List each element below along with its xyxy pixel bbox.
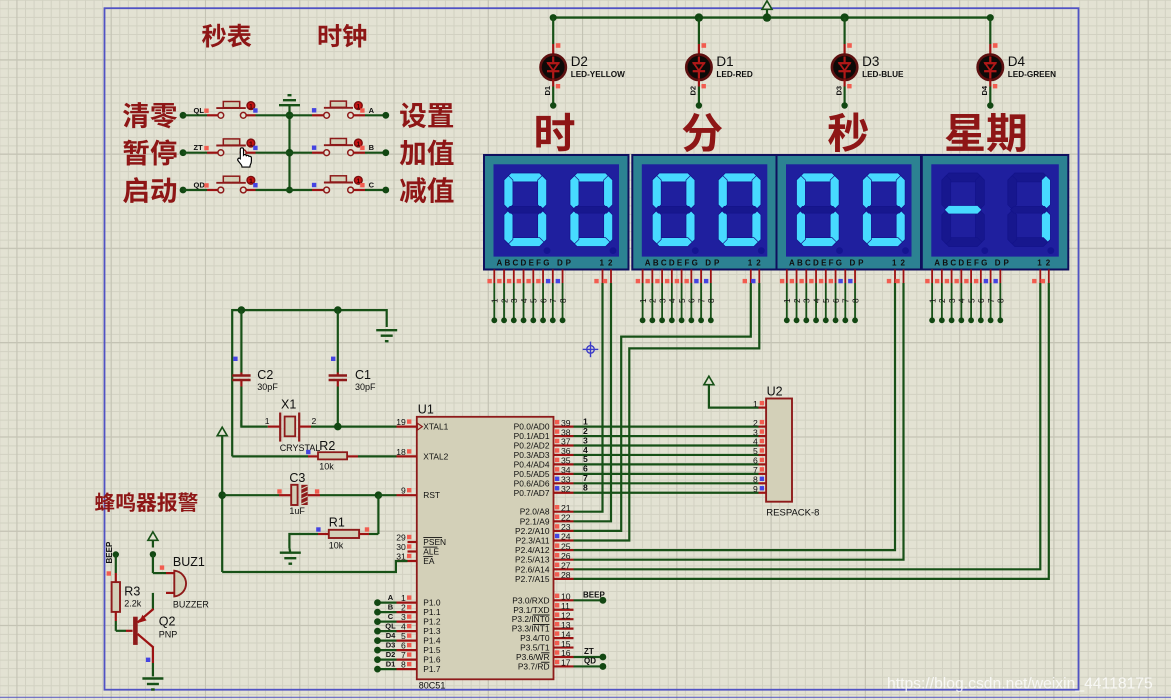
svg-text:24: 24 — [561, 532, 571, 542]
svg-text:3: 3 — [948, 298, 957, 303]
svg-text:2: 2 — [901, 259, 906, 268]
U1 pin 5 P1.4 wire (net D4) — [374, 631, 417, 644]
U1 pin label P3.1/TXD — [513, 605, 549, 615]
svg-text:2: 2 — [793, 298, 802, 303]
svg-text:A: A — [388, 593, 394, 602]
svg-text:4: 4 — [668, 298, 677, 303]
U1 pin label EA — [423, 556, 435, 566]
U1 pin label XTAL2 — [423, 451, 448, 461]
svg-text:1: 1 — [356, 178, 360, 185]
label 设置 — [400, 102, 453, 128]
junction C1/XTAL1 wire — [334, 423, 342, 431]
crystal X1 — [265, 398, 321, 454]
U1 pin 36 P0.3/AD3 wire (net 4) to U2 pin 5 — [554, 445, 767, 456]
svg-text:P2.0/A8: P2.0/A8 — [520, 507, 550, 517]
wire P2.4 to display3 sel1 — [574, 283, 896, 550]
U1 pin 16 P3.6/WR wire (net ZT) — [554, 647, 607, 660]
svg-text:7: 7 — [549, 298, 558, 303]
display 1 segment pin 4 — [517, 270, 529, 324]
svg-text:D3: D3 — [834, 86, 843, 96]
svg-text:5: 5 — [967, 298, 976, 303]
display 7SEG-MPX2 (seconds) — [777, 155, 922, 270]
svg-text:P2.6/A14: P2.6/A14 — [515, 564, 550, 574]
svg-text:P1.3: P1.3 — [423, 626, 441, 636]
svg-text:21: 21 — [561, 503, 571, 513]
display 1 segment pin 1 — [487, 270, 499, 324]
svg-text:1uF: 1uF — [289, 506, 305, 516]
svg-text:1: 1 — [249, 103, 253, 110]
display 2 segment pin 7 — [694, 270, 706, 324]
U1 pin label P2.5/A13 — [515, 555, 550, 565]
U1 pin 39 P0.0/AD0 wire (net 1) to U2 pin 2 — [554, 416, 767, 427]
svg-text:RESPACK-8: RESPACK-8 — [766, 508, 819, 519]
U1 pin 28 P2.7/A15 stub — [554, 570, 574, 580]
U1 pin label P2.3/A11 — [516, 536, 550, 546]
U1 pin 24 P2.3/A11 stub — [554, 532, 574, 542]
display 3 segment pin 8 — [848, 270, 860, 324]
label 秒 — [828, 113, 868, 152]
ground (button common) — [279, 95, 300, 105]
svg-text:4: 4 — [520, 298, 529, 303]
capacitor C1 30pF — [329, 310, 376, 427]
label 暂停 — [124, 139, 177, 165]
svg-text:8: 8 — [997, 298, 1006, 303]
display 1 segment pin 3 — [507, 270, 519, 324]
svg-text:18: 18 — [396, 447, 406, 457]
U1 pin 7 P1.6 wire (net D2) — [374, 650, 417, 663]
power arrow (RST) — [217, 427, 227, 443]
led D2 LED-YELLOW — [541, 18, 626, 109]
svg-text:P1.4: P1.4 — [423, 636, 441, 646]
display 4 select pin 1 stub — [1032, 270, 1040, 284]
led D3 LED-BLUE — [832, 18, 904, 109]
U1 pin label P0.3/AD3 — [514, 450, 550, 460]
svg-text:27: 27 — [561, 561, 571, 571]
U1 pin 13 P3.3 stub — [554, 620, 574, 630]
svg-text:D4: D4 — [980, 85, 989, 95]
svg-text:5: 5 — [530, 298, 539, 303]
svg-text:D3: D3 — [862, 54, 879, 69]
U1 pin 18 XTAL2 stub — [396, 447, 417, 457]
svg-text:1: 1 — [491, 298, 500, 303]
rail corner right — [987, 14, 994, 21]
svg-text:XTAL2: XTAL2 — [423, 451, 448, 461]
svg-text:2: 2 — [1046, 259, 1051, 268]
svg-text:BUZZER: BUZZER — [173, 600, 210, 610]
display 2 segment pin 5 — [675, 270, 687, 324]
svg-text:RST: RST — [423, 490, 440, 500]
svg-text:4: 4 — [958, 298, 967, 303]
capacitor C3 1uF — [222, 471, 378, 516]
display 7SEG-MPX2 (weekday) — [922, 155, 1069, 270]
display 3 segment pin 3 — [799, 270, 811, 324]
U1 pin 38 P0.1/AD1 wire (net 2) to U2 pin 3 — [554, 426, 767, 437]
label 星期 — [946, 113, 1026, 152]
wire crystal pin2 to XTAL1 — [311, 426, 397, 428]
svg-text:B: B — [388, 603, 394, 612]
junction row1/bus — [286, 112, 294, 120]
svg-text:P2.5/A13: P2.5/A13 — [515, 555, 550, 565]
svg-text:7: 7 — [987, 298, 996, 303]
svg-text:80C51: 80C51 — [419, 681, 446, 691]
display 3 segment pin 4 — [809, 270, 821, 324]
label 分 — [683, 113, 723, 152]
svg-text:LED-YELLOW: LED-YELLOW — [571, 70, 625, 79]
svg-text:2: 2 — [649, 298, 658, 303]
svg-text:4: 4 — [401, 622, 406, 632]
svg-text:1: 1 — [356, 103, 360, 110]
U1 pin 8 P1.7 wire (net D1) — [374, 660, 417, 673]
svg-text:4: 4 — [812, 298, 821, 303]
svg-text:8: 8 — [851, 298, 860, 303]
display 2 select pin 1 stub — [743, 270, 751, 284]
svg-text:19: 19 — [396, 417, 406, 427]
svg-text:P3.7/RD: P3.7/RD — [518, 661, 550, 671]
svg-text:C: C — [369, 181, 375, 190]
svg-text:3: 3 — [658, 298, 667, 303]
capacitor C2 30pF — [232, 310, 278, 427]
resistor R3 2.2k — [107, 555, 142, 631]
U1 pin 22 P2.1/A9 stub — [554, 513, 574, 523]
svg-text:1: 1 — [356, 141, 360, 148]
svg-text:C3: C3 — [289, 471, 305, 485]
U1 pin 2 P1.1 wire (net B) — [374, 603, 417, 616]
display 7SEG-MPX2 (hours) — [484, 155, 629, 270]
svg-text:P1.5: P1.5 — [423, 645, 441, 655]
origin marker (blue crosshair) — [583, 342, 599, 358]
U1 pin label P3.6/WR — [516, 652, 550, 662]
svg-text:LED-GREEN: LED-GREEN — [1008, 70, 1056, 79]
svg-text:1: 1 — [600, 259, 605, 268]
svg-text:1: 1 — [639, 298, 648, 303]
svg-text:P1.6: P1.6 — [423, 655, 441, 665]
svg-text:28: 28 — [561, 570, 571, 580]
push button QL — [180, 102, 290, 119]
svg-text:U1: U1 — [418, 403, 434, 417]
svg-text:X1: X1 — [281, 398, 296, 412]
svg-text:D2: D2 — [689, 86, 698, 96]
U1 pin label P3.5/T1 — [520, 643, 550, 653]
junction C2/rail — [238, 306, 246, 314]
svg-text:P2.4/A12: P2.4/A12 — [515, 545, 550, 555]
display 2 segment pin 8 — [704, 270, 716, 324]
junction rail/led D3 — [840, 13, 848, 21]
svg-text:PNP: PNP — [159, 630, 178, 640]
svg-text:XTAL1: XTAL1 — [423, 422, 448, 432]
wire C2 to crystal pin1 — [241, 420, 267, 427]
svg-text:9: 9 — [753, 484, 758, 494]
display 4 segment pin 4 — [954, 270, 966, 324]
display 4 segment pin 2 — [935, 270, 947, 324]
svg-text:PSEN: PSEN — [423, 537, 446, 547]
U1 pin 35 P0.4/AD4 wire (net 5) to U2 pin 6 — [554, 454, 767, 465]
U1 pin 26 P2.5/A13 stub — [554, 551, 574, 561]
svg-text:10k: 10k — [329, 541, 344, 551]
U1 pin 33 P0.6/AD6 wire (net 7) to U2 pin 8 — [554, 473, 767, 484]
ground (R1) — [280, 548, 301, 564]
svg-text:D3: D3 — [386, 641, 396, 650]
svg-text:P1.7: P1.7 — [423, 664, 441, 674]
display 1 segment pin 6 — [536, 270, 548, 324]
label 蜂鸣器报警 — [95, 492, 198, 512]
svg-text:2: 2 — [938, 298, 947, 303]
net label BEEP (vertical) — [105, 541, 114, 563]
svg-text:30pF: 30pF — [257, 382, 278, 392]
push button A — [290, 101, 390, 119]
display 4 select pin 2 stub — [1041, 270, 1049, 284]
svg-text:EA: EA — [423, 556, 435, 566]
svg-text:8: 8 — [583, 483, 588, 493]
display 2 segment pin 1 — [636, 270, 648, 324]
led D1 LED-RED — [686, 18, 753, 109]
resistor R2 10k — [232, 439, 396, 472]
svg-text:2: 2 — [756, 259, 761, 268]
U1 pin 30 ALE stub — [396, 542, 417, 552]
power rail VCC (top) — [553, 16, 990, 18]
junction C1/rail — [334, 306, 342, 314]
svg-text:26: 26 — [561, 551, 571, 561]
svg-text:8: 8 — [559, 298, 568, 303]
svg-text:1: 1 — [753, 399, 758, 409]
U1 pin label P1.5 — [423, 645, 441, 655]
led D4 LED-GREEN — [978, 18, 1057, 109]
svg-text:P1.0: P1.0 — [423, 598, 441, 608]
svg-text:6: 6 — [832, 298, 841, 303]
U1 pin 19 XTAL1 stub — [396, 417, 417, 427]
svg-text:8: 8 — [401, 660, 406, 670]
push button B — [290, 139, 390, 157]
U1 pin 14 P3.4 stub — [554, 629, 574, 639]
U1 pin label P1.6 — [423, 655, 441, 665]
svg-text:C1: C1 — [355, 368, 371, 382]
U1 pin label P0.2/AD2 — [514, 441, 550, 451]
svg-text:1: 1 — [1037, 259, 1042, 268]
svg-text:3: 3 — [803, 298, 812, 303]
label 减值 — [400, 177, 454, 203]
display 1 segment pin 2 — [497, 270, 509, 324]
U1 pin label P1.0 — [423, 598, 441, 608]
U1 pin 3 P1.2 wire (net C) — [374, 612, 417, 625]
U1 pin 17 P3.7/RD wire (net QD) — [554, 657, 607, 670]
display 3 segment pin 7 — [838, 270, 850, 324]
svg-text:BEEP: BEEP — [105, 541, 114, 563]
svg-text:QL: QL — [385, 622, 396, 631]
display 4 segment pin 8 — [993, 270, 1005, 324]
svg-text:30pF: 30pF — [355, 382, 376, 392]
wire EA to VCC rail — [222, 561, 407, 572]
display 4 segment pin 5 — [964, 270, 976, 324]
svg-text:7: 7 — [842, 298, 851, 303]
svg-text:CRYSTAL: CRYSTAL — [280, 443, 321, 453]
U1 pin label P2.0/A8 — [520, 507, 550, 517]
wire P2.6 to display4 sel1 — [574, 283, 1041, 569]
svg-text:QL: QL — [194, 106, 205, 115]
svg-text:Q2: Q2 — [159, 615, 176, 629]
svg-text:3: 3 — [401, 612, 406, 622]
node buzzer VCC — [150, 551, 156, 557]
wire P2.7 to display4 sel2 — [574, 283, 1049, 579]
junction RST/R1 — [375, 491, 383, 499]
display 1 segment pin 7 — [546, 270, 558, 324]
junction row2/bus — [286, 149, 294, 157]
power arrow (top rail) — [762, 1, 772, 18]
U1 pin 31 EA stub — [396, 552, 417, 562]
svg-text:P2.7/A15: P2.7/A15 — [515, 574, 550, 584]
display 3 segment pin 6 — [829, 270, 841, 324]
wire P2.1 to display1 sel2 — [574, 283, 612, 521]
display 1 select pin 2 stub — [603, 270, 611, 284]
display 2 select pin 2 stub — [751, 270, 759, 284]
junction rail/led D1 — [695, 13, 703, 21]
U1 pin 37 P0.2/AD2 wire (net 3) to U2 pin 4 — [554, 435, 767, 446]
svg-text:B: B — [369, 143, 375, 152]
display 2 segment pin 3 — [655, 270, 667, 324]
svg-text:1: 1 — [401, 593, 406, 603]
U1 pin label P2.4/A12 — [515, 545, 550, 555]
label 启动 — [123, 177, 176, 203]
rail corner left — [550, 14, 557, 21]
display 2 segment pin 2 — [645, 270, 657, 324]
svg-text:ZT: ZT — [584, 647, 594, 656]
U1 pin label RST — [423, 490, 440, 500]
display 3 segment pin 2 — [790, 270, 802, 324]
U1 pin label P0.1/AD1 — [514, 431, 550, 441]
U1 pin label PSEN — [423, 537, 446, 547]
svg-text:17: 17 — [561, 658, 571, 668]
label 时 — [536, 113, 574, 152]
U1 pin label P0.0/AD0 — [514, 422, 550, 432]
svg-text:7: 7 — [401, 650, 406, 660]
svg-text:25: 25 — [561, 541, 571, 551]
svg-text:5: 5 — [678, 298, 687, 303]
junction row3/bus — [286, 187, 293, 194]
svg-text:23: 23 — [561, 522, 571, 532]
svg-text:D1: D1 — [386, 660, 396, 669]
svg-text:2: 2 — [608, 259, 613, 268]
svg-text:P2.1/A9: P2.1/A9 — [520, 516, 550, 526]
label 加值 — [400, 140, 454, 166]
display 3 select pin 1 stub — [887, 270, 895, 284]
display 4 segment pin 3 — [945, 270, 957, 324]
U1 pin label P1.4 — [423, 636, 441, 646]
ground (Q2) — [142, 679, 163, 690]
svg-text:3: 3 — [510, 298, 519, 303]
svg-text:P2.3/A11: P2.3/A11 — [516, 536, 550, 546]
U1 pin label P0.5/AD5 — [514, 469, 550, 479]
svg-text:P1.1: P1.1 — [423, 607, 441, 617]
svg-text:1: 1 — [265, 416, 270, 426]
U1 pin 34 P0.5/AD5 wire (net 6) to U2 pin 7 — [554, 464, 767, 475]
U1 pin 1 P1.0 wire (net A) — [374, 593, 417, 606]
svg-text:D1: D1 — [543, 86, 552, 96]
wire P2.0 to display1 sel1 — [574, 283, 603, 512]
svg-text:22: 22 — [561, 513, 571, 523]
display 4 segment pin 1 — [925, 270, 937, 324]
svg-text:U2: U2 — [767, 385, 783, 399]
svg-text:BUZ1: BUZ1 — [173, 555, 205, 569]
U1 pin label P0.7/AD7 — [514, 488, 550, 498]
display 7SEG-MPX2 (minutes) — [632, 155, 777, 270]
svg-text:8: 8 — [707, 298, 716, 303]
U1 pin label P1.2 — [423, 617, 441, 627]
U1 pin 11 P3.1 stub — [554, 601, 574, 611]
U1 pin label P3.4/T0 — [520, 633, 550, 643]
U1 pin label P3.0/RXD — [512, 595, 549, 605]
display 3 segment pin 1 — [780, 270, 792, 324]
resistor R1 10k — [289, 495, 378, 550]
svg-text:D1: D1 — [716, 54, 733, 69]
U1 pin label P1.1 — [423, 607, 441, 617]
U1 pin 27 P2.6/A14 stub — [554, 561, 574, 571]
svg-text:10k: 10k — [319, 462, 334, 472]
svg-text:2.2k: 2.2k — [124, 599, 142, 609]
svg-text:2: 2 — [401, 603, 406, 613]
U1 pin label P1.7 — [423, 664, 441, 674]
transistor Q2 PNP — [116, 593, 178, 677]
U1 pin 10 P3.0/RXD wire (net BEEP) — [554, 591, 607, 604]
U1 pin label P3.2/INT0 — [512, 614, 550, 624]
display 3 segment pin 5 — [819, 270, 831, 324]
U1 pin 6 P1.5 wire (net D3) — [374, 641, 417, 654]
mouse cursor — [238, 148, 252, 167]
svg-text:https://blog.csdn.net/weixin_4: https://blog.csdn.net/weixin_44118175 — [887, 676, 1153, 693]
junction rail/arrow — [763, 13, 771, 21]
push button ZT — [180, 139, 290, 156]
display 2 segment pin 4 — [665, 270, 677, 324]
U1 pin label P2.7/A15 — [515, 574, 550, 584]
svg-text:7: 7 — [697, 298, 706, 303]
push button C — [290, 176, 390, 194]
svg-text:R1: R1 — [329, 516, 345, 530]
svg-text:ALE: ALE — [423, 547, 439, 557]
U1 pin label P2.2/A10 — [515, 526, 550, 536]
U1 pin label XTAL1 — [417, 422, 448, 432]
U1 pin 9 RST stub — [397, 486, 417, 496]
wire P2.2 to display2 sel1 — [574, 283, 751, 531]
power arrow (buzzer) — [148, 532, 158, 548]
wire P2.3 to display2 sel2 — [574, 283, 760, 541]
U1 pin 25 P2.4/A12 stub — [554, 541, 574, 551]
U1 pin 29 PSEN stub — [396, 533, 417, 543]
U1 pin 32 P0.7/AD7 wire (net 8) to U2 pin 9 — [554, 483, 767, 494]
display 1 segment pin 5 — [526, 270, 538, 324]
U1 pin 21 P2.0/A8 stub — [554, 503, 574, 513]
svg-text:D2: D2 — [386, 650, 396, 659]
wire RST to U1 — [378, 494, 396, 496]
U1 pin 15 P3.5 stub — [554, 639, 574, 649]
display 3 select pin 2 stub — [895, 270, 903, 284]
U1 pin 12 P3.2 stub — [554, 610, 574, 620]
U1 pin label P0.4/AD4 — [514, 459, 550, 469]
U1 pin label ALE — [423, 547, 439, 557]
svg-text:1: 1 — [783, 298, 792, 303]
display 1 select pin 1 stub — [594, 270, 602, 284]
ground (crystal rail) — [376, 330, 397, 341]
svg-text:1: 1 — [249, 141, 253, 148]
svg-text:BEEP: BEEP — [583, 591, 605, 600]
display 2 segment pin 6 — [684, 270, 696, 324]
svg-text:ZT: ZT — [194, 143, 204, 152]
display 4 segment pin 6 — [974, 270, 986, 324]
svg-text:5: 5 — [401, 631, 406, 641]
U1 pin label P2.6/A14 — [515, 564, 550, 574]
svg-text:C2: C2 — [257, 368, 273, 382]
U1 pin label P2.1/A9 — [520, 516, 550, 526]
U1 pin label P1.3 — [423, 626, 441, 636]
svg-text:A: A — [369, 106, 375, 115]
svg-text:QD: QD — [194, 181, 206, 190]
svg-text:P0.7/AD7: P0.7/AD7 — [514, 488, 550, 498]
